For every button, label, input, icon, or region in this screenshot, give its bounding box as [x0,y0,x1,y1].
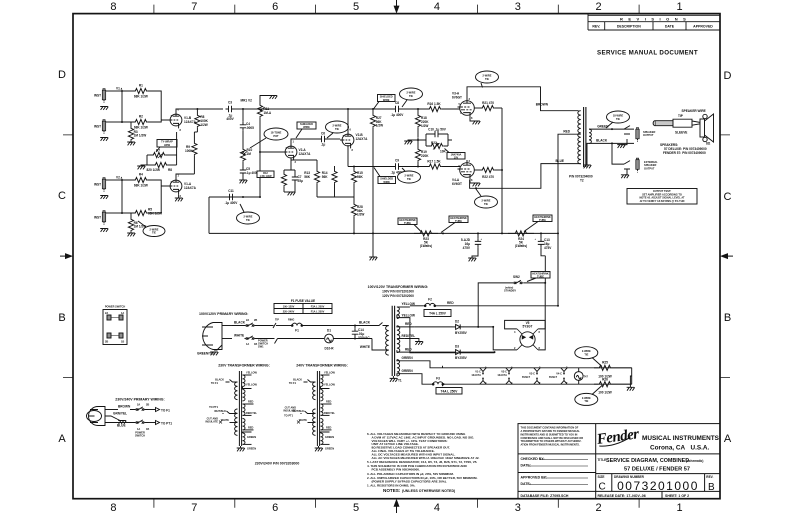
speaker jack J5 switch [624,126,630,134]
svg-text:WHITE: WHITE [234,334,244,338]
wire jack1 to node [106,90,122,92]
svg-text:GREEN: GREEN [402,369,414,373]
external speaker jack J6 [636,158,658,172]
AC plug euro [87,407,106,426]
svg-text:D2: D2 [455,320,459,324]
svg-text:(UNLESS OTHERWISE NOTED): (UNLESS OTHERWISE NOTED) [402,489,456,493]
title block [518,424,720,499]
coupling cap C8 top [391,101,405,117]
svg-text:F1A L 250V: F1A L 250V [311,310,325,314]
svg-text:1: 1 [676,1,682,13]
F3 value box [436,388,462,395]
svg-text:1M-A: 1M-A [264,111,272,115]
svg-text:2: 2 [514,346,516,350]
svg-text:8: 8 [471,116,473,120]
wire to R1 [122,91,134,122]
svg-text:3: 3 [180,194,182,198]
svg-text:WHITE: WHITE [221,418,230,422]
label box R24 [524,215,552,232]
svg-text:120V P/N 0073202000: 120V P/N 0073202000 [382,294,414,298]
svg-text:68K 1/2W: 68K 1/2W [134,95,148,99]
svg-text:2: 2 [596,502,602,513]
PT HV winding [397,326,400,353]
resistor R1 68K [134,84,148,99]
power switch label [135,431,145,438]
240V transformer [283,371,335,452]
long vertical feed [372,109,374,253]
svg-text:.1μ 400V: .1μ 400V [391,113,405,117]
wire tone wiper to V2-A grid [260,151,283,153]
junction [501,169,503,171]
wire tie oval above V3 [476,71,499,88]
svg-text:A: A [58,433,66,445]
svg-text:R2: R2 [139,115,143,119]
svg-text:R17 1.5K: R17 1.5K [427,160,441,164]
svg-text:RED/YEL: RED/YEL [324,411,335,415]
svg-text:100V/120V TRANSFORMER WIRING:: 100V/120V TRANSFORMER WIRING: [368,285,429,289]
wire tie oval below V4 [475,189,498,208]
V5 heater from 5V winding [410,334,495,353]
230V transformer [205,371,257,452]
PT primary winding [386,326,389,355]
junction [196,108,198,110]
ground [269,96,277,99]
svg-text:1/2W: 1/2W [357,213,364,217]
ground [127,142,135,145]
plate resistor R8 100K [195,109,209,132]
wire tie oval heater top [575,347,602,367]
fuse F1 [276,323,372,332]
svg-text:0073201000: 0073201000 [617,479,699,493]
svg-text:BLACK: BLACK [215,378,224,382]
svg-text:SERVICE MANUAL DOCUMENT: SERVICE MANUAL DOCUMENT [597,50,698,57]
cathode cap C7 [292,170,303,192]
junction [494,351,496,353]
vertical from preamp [209,197,260,233]
svg-text:TIE: TIE [409,94,413,98]
svg-text:INSTRUMENTS AND IS SUBMITTED T: INSTRUMENTS AND IS SUBMITTED TO YOU IN [521,432,578,436]
svg-text:CHECKED BY:: CHECKED BY: [521,457,545,461]
svg-text:BROWN: BROWN [118,405,131,409]
power tube V4-A [452,159,474,186]
svg-text:V2▲: V2▲ [116,176,123,180]
junction [354,338,356,340]
svg-text:(1Watts): (1Watts) [420,244,432,248]
svg-text:B: B [58,312,65,324]
svg-text:T2: T2 [580,179,584,183]
svg-text:4: 4 [434,502,440,513]
fender logo [595,426,640,448]
node dot [121,121,123,123]
svg-text:100 1/2W: 100 1/2W [598,391,611,395]
svg-text:5: 5 [353,1,359,13]
pilot lamp D4 [574,368,588,384]
svg-text:GREEN: GREEN [325,435,334,439]
svg-text:TIP: TIP [678,114,683,118]
svg-text:RED: RED [563,130,570,134]
svg-text:RING: RING [288,318,294,322]
hot wire black [222,325,232,327]
svg-text:2A: 2A [105,311,108,315]
PI resistor R14 [317,166,354,197]
svg-text:1.5K 1/2W: 1.5K 1/2W [259,174,272,178]
standby wire left [478,283,512,327]
tone pot R10 [240,148,252,168]
junction [540,232,542,234]
PT ground [392,376,394,378]
centre mark arrow right [725,255,733,257]
svg-text:TO PT1: TO PT1 [209,405,218,409]
svg-text:V1▲: V1▲ [116,87,123,91]
screen bus [501,108,503,233]
svg-text:TIE: TIE [335,127,339,131]
svg-text:R8: R8 [168,168,172,172]
junction [347,108,349,110]
svg-text:TO F1: TO F1 [161,409,170,413]
svg-text:230V/240V PRIMARY WIRING:: 230V/240V PRIMARY WIRING: [115,398,164,402]
svg-text:GREEN: GREEN [247,447,256,451]
svg-text:YELLOW: YELLOW [402,314,415,318]
svg-text:1A: 1A [246,342,249,346]
svg-text:7: 7 [191,1,197,13]
ground [210,352,218,355]
triode V2-A [283,140,311,165]
yellow lead 2 [397,315,410,337]
jack J6 ground [625,170,627,175]
svg-text:SWITCH: SWITCH [135,434,145,438]
input jack J4 [94,211,106,225]
power switch detail box [103,305,127,345]
bias resistor R23 [414,231,438,248]
svg-text:2B: 2B [254,318,257,322]
svg-text:68K 1/2W: 68K 1/2W [134,184,148,188]
svg-text:R22: R22 [431,141,437,145]
svg-text:C: C [724,191,732,203]
fuse F3 [431,377,445,386]
centre mark arrow top [396,0,398,9]
junction [442,232,444,234]
svg-text:POT: POT [273,134,279,138]
svg-text:WIRE: WIRE [383,98,390,102]
PT 6.3V winding [397,360,400,376]
power tube V3-A [452,92,474,121]
PT header text [368,285,429,298]
svg-text:1: 1 [676,502,682,513]
svg-text:D3: D3 [455,345,459,349]
svg-text:RED: RED [248,426,254,430]
OT primary winding [578,111,581,164]
wire tie oval heater bottom [575,386,602,406]
ground [100,138,108,141]
hum balance resistor R25 [594,361,632,379]
svg-text:25μ: 25μ [298,179,303,183]
svg-text:YELLOW: YELLOW [246,371,257,375]
svg-text:GREEN: GREEN [325,447,334,451]
V3-A cathode ground [470,118,476,121]
svg-text:BLUE: BLUE [555,159,564,163]
svg-text:TO PT1: TO PT1 [161,422,172,426]
switch SW2 [504,272,550,293]
svg-text:C6: C6 [321,132,325,136]
junction [372,108,374,110]
svg-text:B: B [724,312,731,324]
input jack J1 [94,89,106,103]
ground [404,141,412,144]
heater rail bottom [443,383,632,385]
svg-text:F1 FUSE VALUE: F1 FUSE VALUE [291,299,315,303]
svg-text:8: 8 [539,346,541,350]
bias cap C10 and trimmer R22 loop [418,128,452,154]
wire pot top to ground [260,96,273,101]
wire channel2 bus [121,180,123,213]
svg-text:GRN/YEL: GRN/YEL [113,412,127,416]
svg-text:MUSICAL INSTRUMENTS: MUSICAL INSTRUMENTS [642,435,720,442]
svg-text:56K: 56K [357,175,363,179]
svg-text:6: 6 [272,1,278,13]
svg-text:TO PT1: TO PT1 [284,414,293,418]
junction [353,166,355,168]
green lead 1 [397,360,408,361]
svg-text:HDW: HDW [164,143,171,147]
svg-text:T4A L 250V: T4A L 250V [441,389,459,393]
input jack J3 [94,178,106,192]
svg-text:YELLOW: YELLOW [324,371,335,375]
junction [417,166,419,168]
svg-text:WHITE: WHITE [360,345,370,349]
junction heater [442,383,444,385]
svg-text:TO F1: TO F1 [211,381,219,385]
svg-text:1/2W: 1/2W [200,123,207,127]
input jack J2 [94,120,106,134]
svg-text:8Ω: 8Ω [706,142,711,146]
svg-text:6V6GT: 6V6GT [549,375,558,379]
red lead bottom [397,350,415,352]
wire tie oval near OT [606,111,630,128]
junction [492,326,494,328]
svg-text:INST: INST [94,216,101,220]
yellow lead 1 [397,306,410,308]
screen resistor R21 [474,101,502,111]
svg-text:REV.: REV. [592,25,600,29]
cap C11 on preamp rail [225,189,239,205]
svg-text:3: 3 [469,159,471,163]
triode V1-B [168,108,197,133]
junction bias rail [372,232,374,234]
blue wire [105,422,128,424]
svg-text:400V: 400V [226,117,234,121]
label box cathode [257,171,274,178]
svg-text:FENDER 57: P/N 0073409000: FENDER 57: P/N 0073409000 [663,151,706,155]
svg-text:6: 6 [178,108,180,112]
svg-text:2B: 2B [105,340,108,344]
switch SW3b [128,420,149,431]
svg-text:220–240V: 220–240V [283,310,295,314]
svg-text:1B: 1B [254,342,257,346]
cap C5 [240,167,260,176]
jack J5 ground [621,139,627,145]
node V2 [116,176,123,182]
svg-text:BY255V: BY255V [455,331,468,335]
PT black jog [372,323,389,351]
grn/yel wire [105,416,117,419]
svg-text:R25: R25 [602,361,608,365]
revisions table [588,14,720,30]
heater V2-C [497,366,513,386]
svg-text:1B: 1B [146,427,149,431]
svg-text:1/2W: 1/2W [376,124,383,128]
to PT1 arrow [149,421,173,426]
svg-text:ATION FROM FENDER MUSICAL INST: ATION FROM FENDER MUSICAL INSTRUMENTS. [521,443,580,447]
V4-A plate wire to OT blue [470,164,581,189]
svg-text:GREEN: GREEN [402,356,414,360]
V3-A plate wire to OT [467,87,579,111]
svg-text:T4A L 250V: T4A L 250V [429,312,447,316]
svg-text:INST: INST [94,94,101,98]
svg-text:R26: R26 [602,378,608,382]
svg-text:BY255V: BY255V [455,356,468,360]
centre mark arrow bottom [396,504,398,513]
svg-text:R22 470: R22 470 [482,175,494,179]
triode V1-A [168,174,197,199]
fuse F2 [410,298,558,307]
OT secondary ground leg [587,143,589,165]
svg-text:C11: C11 [228,189,234,193]
svg-text:370VAC: 370VAC [358,336,370,340]
B+ node wire [194,131,197,133]
wire lamp to PT white [333,338,372,340]
cathode loop wires [141,132,177,166]
svg-text:TO F1: TO F1 [289,381,297,385]
plug ground wire [214,345,222,350]
svg-text:1B: 1B [121,340,124,344]
ground [100,107,108,110]
svg-text:GREEN: GREEN [247,435,256,439]
zone ticks right [720,135,730,378]
wire channel1 bus [121,91,123,122]
label box R23b [441,216,468,233]
svg-text:TUBE: TUBE [537,275,544,279]
ground [369,257,377,260]
svg-text:OUTPUT: OUTPUT [643,133,654,137]
oval tie [237,204,260,224]
resistor R4 68K [134,173,148,188]
svg-text:D1: D1 [327,329,331,333]
ground [100,229,108,232]
neutral wire white [222,338,232,340]
phone plug drawing [653,119,700,127]
svg-text:2B: 2B [146,403,149,407]
hum balance resistor R26 [594,378,632,395]
svg-text:TRANSMITTED TO OTHERS WITHOUT: TRANSMITTED TO OTHERS WITHOUT AUTHORIZ- [521,439,582,443]
junction [417,139,419,141]
svg-text:12AX7A: 12AX7A [184,186,197,190]
power switch label [258,339,268,349]
svg-text:56K: 56K [304,175,310,179]
svg-text:RED: RED [248,400,254,404]
heater rail top [443,367,632,369]
svg-text:TIE: TIE [584,399,588,403]
svg-text:INSULATE: INSULATE [205,420,218,424]
svg-text:TIE: TIE [484,202,488,206]
svg-text:C10 .1μ 50V: C10 .1μ 50V [428,128,447,132]
svg-text:WIRE: WIRE [303,125,310,129]
wire tie oval [326,121,349,138]
svg-text:R4: R4 [139,173,143,177]
svg-text:F3A L 250V: F3A L 250V [311,305,325,309]
svg-text:RED: RED [326,400,332,404]
switch SW1b [245,336,258,346]
svg-text:1A: 1A [121,311,124,315]
ground [100,196,108,199]
svg-text:.1μ 400V: .1μ 400V [225,201,239,205]
speaker symbol [700,114,714,142]
junction [477,232,479,234]
grid resistor R16 [402,102,461,112]
svg-text:4: 4 [514,330,516,334]
V4-A cathode ground [470,180,476,183]
svg-text:(schematic): (schematic) [686,459,703,463]
speakers notes [660,143,707,155]
svg-text:D10-R: D10-R [324,347,334,351]
heater V1-C [471,366,487,386]
svg-text:J2 TO VERIFY 18.5W RMS @ 5% TH: J2 TO VERIFY 18.5W RMS @ 5% THD [640,199,685,203]
svg-text:RED/YEL: RED/YEL [402,334,416,338]
svg-text:TIE: TIE [616,117,620,121]
svg-text:100V/120V PRIMARY WIRING:: 100V/120V PRIMARY WIRING: [199,312,248,316]
svg-text:OUTPUT: OUTPUT [644,166,655,170]
wire cap to node [235,108,244,110]
bias resistor R24 [508,231,534,248]
label box bias [296,122,316,138]
svg-text:RELEASE DATE: 17–NOV–06: RELEASE DATE: 17–NOV–06 [598,494,646,498]
wire PI bottom rail [291,159,317,161]
ground [117,419,120,421]
ext jack switch [624,161,630,169]
svg-text:B: B [708,482,715,493]
svg-text:TIE: TIE [246,218,250,222]
svg-text:8: 8 [471,178,473,182]
svg-text:F1: F1 [295,329,299,333]
label box shielded wire top [374,95,396,110]
junction [242,151,244,153]
PI resistor R15 [351,166,363,203]
svg-text:TIP: TIP [275,318,279,322]
svg-text:4: 4 [434,1,440,13]
svg-text:R1: R1 [139,84,143,88]
svg-text:230V/240V P/N 0073203000: 230V/240V P/N 0073203000 [255,462,300,466]
label box hardware [156,140,177,153]
cathode resistor R12 [281,170,286,192]
svg-text:C: C [58,190,66,202]
svg-text:230V TRANSFORMER WIRING:: 230V TRANSFORMER WIRING: [218,364,270,368]
diode D2 [415,320,493,336]
cathode resistor R7 [147,149,177,159]
wire tie oval [138,221,165,237]
label box R23 [398,218,422,233]
svg-text:220K: 220K [421,154,429,158]
bias resistor R19 220K [415,148,429,167]
resistor R2 68K [134,115,148,130]
node dot [121,212,123,214]
svg-text:A PROPRIETARY NATURE TO FENDER: A PROPRIETARY NATURE TO FENDER MUSICAL [521,429,581,433]
svg-text:YELLOW: YELLOW [246,383,257,387]
AC plug [202,323,222,350]
wire tie oval top left [400,88,423,107]
V5 output wiring [493,327,545,350]
OT green lead [589,128,634,130]
svg-text:F2: F2 [428,298,432,302]
neutral wire [256,339,325,344]
